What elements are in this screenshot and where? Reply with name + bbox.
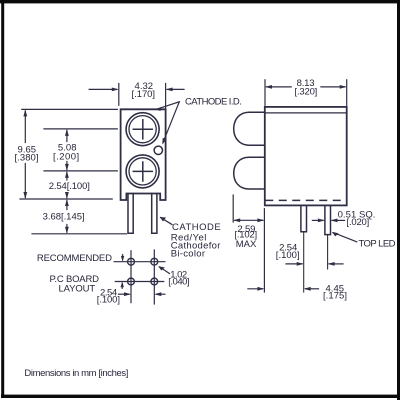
top LED inner circle bbox=[129, 116, 156, 143]
svg-text:MAX: MAX bbox=[236, 239, 257, 250]
pcb hole bottom-left bbox=[128, 278, 135, 285]
pcb 1.02 leader line bbox=[160, 267, 170, 274]
dimension line 8.13 left arrow shaft bbox=[267, 86, 292, 88]
extension line top LED center bbox=[44, 128, 117, 130]
arrowhead 2.54 up bbox=[65, 171, 69, 178]
extension line 8.13 right bbox=[346, 80, 348, 106]
svg-text:Bi-color: Bi-color bbox=[171, 249, 205, 260]
arrowhead cathode id at housing top bbox=[155, 107, 162, 111]
front view housing outline bbox=[121, 109, 166, 200]
dimension arrow stub 5.08 down bbox=[66, 162, 68, 170]
dimension arrow stub 3.68 down bbox=[66, 225, 68, 233]
svg-text:[.170]: [.170] bbox=[132, 89, 156, 100]
arrowhead pcb 1.02 leader bbox=[158, 266, 165, 270]
side view bottom dome lens bbox=[234, 157, 265, 189]
side view body outline bbox=[265, 107, 347, 205]
arrowhead 4.32 right bbox=[166, 88, 173, 92]
arrowhead pcb vertical down bbox=[121, 256, 124, 262]
border frame right bbox=[397, 0, 400, 400]
extension line 9.65 bottom bbox=[20, 198, 112, 200]
dimension 0.51 left arrow shaft bbox=[312, 219, 323, 221]
arrowhead 9.65 top bbox=[23, 109, 27, 116]
svg-text:RECOMMENDED: RECOMMENDED bbox=[37, 253, 112, 264]
bottom LED outer circle bbox=[126, 155, 159, 188]
pcb layout vertical line right bbox=[153, 250, 155, 304]
dimension line 8.13 right arrow shaft bbox=[321, 86, 345, 88]
arrowhead 5.08 up bbox=[65, 129, 69, 136]
side view top dome lens bbox=[234, 112, 265, 145]
svg-text:[.320]: [.320] bbox=[295, 86, 318, 97]
arrowhead cathode leader at pin bbox=[160, 217, 166, 222]
arrowhead 4.45 right bbox=[304, 287, 311, 291]
dimension 4.45 left arrow shaft bbox=[248, 288, 263, 290]
pcb dim arrow stub down bbox=[122, 255, 124, 260]
arrowhead 2.59 right bbox=[257, 218, 264, 222]
extension line 8.13 left bbox=[264, 80, 266, 106]
pcb layout horizontal line top bbox=[114, 261, 165, 263]
dimension 2.54 side left arrow shaft bbox=[286, 263, 302, 265]
arrowhead 8.13 right bbox=[340, 85, 347, 89]
side view left pin center line bbox=[303, 232, 305, 292]
arrowhead pcb vertical up bbox=[121, 282, 124, 288]
pcb layout vertical line left bbox=[130, 251, 132, 303]
cathode ID leader arm to housing top bbox=[157, 102, 180, 109]
svg-text:[.100]: [.100] bbox=[97, 294, 120, 305]
dimension 2.54 side right arrow shaft bbox=[329, 263, 343, 265]
pcb hole top-left bbox=[128, 258, 135, 265]
side view right pin center line bbox=[327, 235, 329, 269]
extension line 9.65 top bbox=[22, 108, 118, 110]
dimension 0.51 right arrow shaft bbox=[332, 219, 344, 221]
arrowhead cathode id at circle bbox=[162, 138, 166, 145]
dimension line 2.59 shaft bbox=[235, 219, 263, 221]
arrowhead 3.68 up bbox=[65, 199, 69, 206]
extension line 2.59 dome front bbox=[232, 195, 234, 222]
arrowhead pcb 2.54 right bbox=[154, 292, 161, 296]
svg-text:3.68[.145]: 3.68[.145] bbox=[43, 212, 85, 223]
cathode leader line front view bbox=[161, 218, 173, 225]
side view right pin outline bbox=[325, 206, 331, 235]
arrowhead 2.54 down bbox=[65, 192, 69, 199]
extension line 4.32 left bbox=[118, 84, 120, 106]
arrowhead 9.65 bottom bbox=[23, 192, 27, 199]
arrowhead pcb 2.54 left bbox=[124, 292, 131, 296]
dimension arrow stub 2.54 down bbox=[66, 193, 68, 198]
svg-text:[.175]: [.175] bbox=[323, 291, 347, 302]
dimension arrow stub 2.54 up bbox=[66, 173, 68, 181]
arrowhead 0.51 left bbox=[318, 219, 325, 223]
top led leader line bbox=[334, 233, 357, 242]
pcb dim 2.54 left arrow shaft bbox=[119, 293, 130, 295]
side view dashed line bbox=[266, 199, 346, 201]
svg-text:LAYOUT: LAYOUT bbox=[59, 283, 96, 294]
arrowhead 0.51 right bbox=[331, 219, 338, 223]
dimension arrow stub 3.68 up bbox=[66, 201, 68, 210]
svg-text:[.100]: [.100] bbox=[276, 250, 300, 261]
dimension line 4.32 left arrow shaft bbox=[89, 88, 116, 90]
arrowhead 4.32 left bbox=[112, 88, 119, 92]
pcb layout horizontal line bottom bbox=[115, 281, 163, 283]
svg-text:CATHODE I.D.: CATHODE I.D. bbox=[185, 96, 242, 107]
arrowhead 2.54 side left bbox=[297, 262, 304, 266]
svg-text:TOP LED: TOP LED bbox=[358, 238, 395, 249]
svg-text:[.040]: [.040] bbox=[168, 276, 189, 287]
pcb dim arrow stub up bbox=[121, 284, 123, 289]
border frame bottom bbox=[1, 395, 400, 398]
arrowhead 2.59 left bbox=[233, 218, 240, 222]
svg-text:CATHODE: CATHODE bbox=[172, 222, 221, 233]
dimension line 4.32 right arrow shaft bbox=[167, 88, 184, 90]
pcb dim 2.54 right arrow shaft bbox=[156, 293, 165, 295]
border frame left bbox=[1, 0, 4, 398]
bottom LED inner circle bbox=[129, 158, 156, 185]
arrowhead 4.45 left bbox=[257, 287, 264, 291]
svg-text:Dimensions in mm [inches]: Dimensions in mm [inches] bbox=[24, 368, 128, 379]
extension line pin bottom (3.68) bbox=[32, 233, 127, 235]
arrowhead 8.13 left bbox=[265, 85, 272, 89]
pcb hole bottom-right bbox=[151, 278, 158, 285]
dimension line 9.65 vertical upper segment bbox=[24, 111, 26, 143]
svg-text:[.200]: [.200] bbox=[53, 151, 79, 162]
border frame top bbox=[0, 0, 400, 3]
bottom LED cross vertical bbox=[142, 162, 144, 181]
extension line bottom LED center bbox=[44, 170, 117, 172]
top LED cross vertical bbox=[142, 120, 144, 139]
dimension line 9.65 vertical lower segment bbox=[24, 164, 26, 198]
arrowhead 2.54 side right bbox=[328, 262, 335, 266]
dimension 4.45 right arrow shaft bbox=[306, 288, 319, 290]
cathode ID small circle bbox=[154, 146, 162, 154]
svg-text:[.380]: [.380] bbox=[15, 153, 39, 164]
top LED cross horizontal bbox=[133, 128, 152, 130]
extension line 4.32 right bbox=[165, 84, 167, 110]
extension line body left edge lower bbox=[263, 209, 265, 292]
svg-text:2.54[.100]: 2.54[.100] bbox=[49, 181, 90, 192]
svg-text:[.020]: [.020] bbox=[347, 217, 370, 228]
bottom LED cross horizontal bbox=[133, 170, 152, 172]
front view left pin bbox=[128, 194, 133, 234]
pcb hole top-right bbox=[151, 258, 158, 265]
side view left pin outline bbox=[301, 206, 307, 232]
arrowhead top led leader bbox=[332, 232, 339, 237]
front view right pin bbox=[152, 194, 157, 234]
side view lip line bbox=[265, 112, 347, 114]
arrowhead 5.08 down bbox=[65, 164, 69, 171]
arrowhead 3.68 down bbox=[65, 227, 69, 234]
dimension arrow stub 5.08 up bbox=[66, 131, 68, 142]
top LED outer circle bbox=[126, 113, 159, 146]
cathode ID leader arm to circle bbox=[163, 102, 179, 143]
